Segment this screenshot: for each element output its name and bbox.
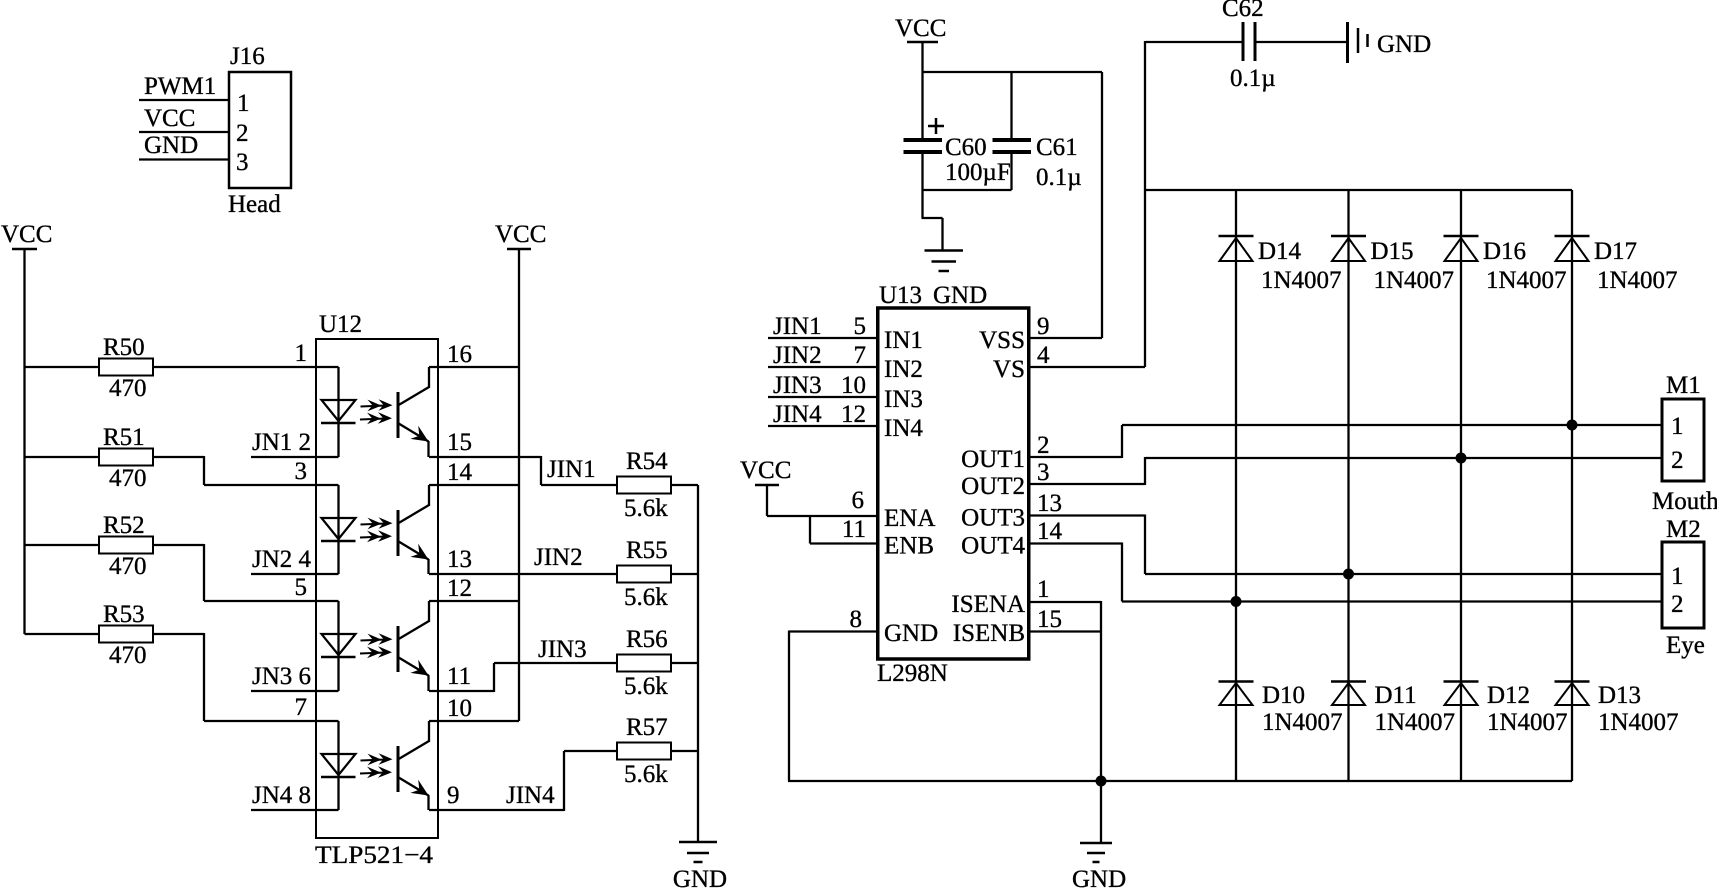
svg-text:5.6k: 5.6k: [624, 584, 668, 611]
wire VCC rail to R53: [25, 633, 100, 635]
resistor R51: [99, 449, 153, 466]
U12 channel 4 phototransistor: [397, 746, 400, 792]
svg-text:ISENA: ISENA: [951, 591, 1025, 618]
wire JN3 stub: [251, 690, 339, 692]
svg-text:3: 3: [236, 149, 249, 176]
resistor R54: [617, 477, 671, 494]
wire C62 to GND: [1255, 41, 1347, 43]
svg-text:470: 470: [109, 553, 147, 580]
wire JIN1 to U13 IN1: [768, 337, 878, 339]
svg-text:15: 15: [447, 429, 472, 456]
wire J16 pin3: [139, 158, 229, 160]
svg-text:JN2 4: JN2 4: [252, 546, 312, 573]
wire R55 to GND rail: [671, 573, 698, 575]
svg-text:12: 12: [841, 401, 866, 428]
svg-text:2: 2: [1671, 591, 1684, 618]
optocoupler U12 TLP521-4 body: [316, 339, 438, 838]
wire to GND (C60/C61): [921, 190, 923, 218]
svg-text:ISENB: ISENB: [953, 620, 1025, 647]
svg-text:R50: R50: [103, 334, 145, 361]
diode D12: [1444, 680, 1479, 683]
svg-text:Head: Head: [228, 191, 281, 218]
svg-text:OUT4: OUT4: [961, 533, 1025, 560]
svg-text:D10: D10: [1262, 682, 1305, 709]
svg-text:D13: D13: [1598, 682, 1641, 709]
wire OUT3: [1029, 514, 1145, 516]
wire JN2 stub: [251, 573, 339, 575]
U12 channel 3 light arrows: [361, 633, 393, 645]
svg-text:VCC: VCC: [1, 221, 52, 248]
svg-text:R53: R53: [103, 601, 145, 628]
wire C60/C61 bottom node: [921, 152, 923, 190]
svg-text:1: 1: [1671, 563, 1684, 590]
svg-text:L298N: L298N: [877, 660, 948, 687]
svg-text:VS: VS: [993, 356, 1025, 383]
svg-text:1: 1: [295, 340, 308, 367]
svg-text:14: 14: [447, 459, 473, 486]
svg-text:1N4007: 1N4007: [1486, 267, 1567, 294]
wire VS node to C62: [1145, 41, 1243, 43]
wire U12 pin9 to JIN4: [429, 809, 564, 811]
svg-text:PWM1: PWM1: [144, 73, 216, 100]
wire R52 to U12 pin 5: [153, 544, 204, 546]
svg-text:12: 12: [447, 575, 472, 602]
svg-text:2: 2: [236, 120, 249, 147]
wire U12 pin13 to JIN2: [429, 573, 617, 575]
svg-text:VCC: VCC: [895, 15, 946, 42]
svg-text:VCC: VCC: [740, 457, 791, 484]
svg-text:R57: R57: [626, 714, 668, 741]
resistor R52: [99, 537, 153, 554]
wire J16 pin1: [139, 99, 229, 101]
svg-text:C61: C61: [1036, 134, 1078, 161]
svg-text:JIN3: JIN3: [773, 372, 822, 399]
svg-text:1: 1: [1037, 576, 1050, 603]
svg-text:GND: GND: [933, 282, 987, 309]
svg-text:JN3 6: JN3 6: [252, 663, 311, 690]
wire U12 pin 10 to VCC rail: [429, 720, 519, 722]
svg-text:9: 9: [447, 782, 460, 809]
wire diode top bus (motor supply): [1145, 189, 1572, 191]
svg-text:IN3: IN3: [884, 386, 923, 413]
svg-text:1: 1: [1671, 413, 1684, 440]
connector M1: [1662, 399, 1704, 481]
svg-text:0.1µ: 0.1µ: [1230, 65, 1276, 92]
wire VCC to ENA: [766, 484, 768, 516]
svg-text:1: 1: [237, 90, 250, 117]
wire U13 GND pin to ground bus: [789, 630, 878, 632]
svg-text:D16: D16: [1483, 238, 1526, 265]
svg-text:R51: R51: [103, 424, 145, 451]
wire diode column D17: [1571, 190, 1573, 781]
wire R56 to GND rail: [671, 662, 698, 664]
U12 channel 1 phototransistor: [397, 392, 400, 438]
svg-text:JIN4: JIN4: [506, 782, 555, 809]
svg-text:ENB: ENB: [884, 533, 934, 560]
svg-text:GND: GND: [144, 132, 198, 159]
svg-text:R56: R56: [626, 626, 668, 653]
wire OUT3 to M2 pin1: [1145, 573, 1662, 575]
svg-text:5: 5: [295, 574, 308, 601]
svg-text:OUT2: OUT2: [961, 473, 1025, 500]
ground GND (below R54-R57): [679, 841, 717, 844]
diode D14: [1219, 235, 1254, 238]
resistor R53: [99, 626, 153, 643]
svg-text:1N4007: 1N4007: [1374, 267, 1455, 294]
svg-text:1N4007: 1N4007: [1262, 709, 1343, 736]
ground GND (C60/C61): [925, 249, 964, 252]
svg-text:2: 2: [1671, 447, 1684, 474]
svg-text:0.1µ: 0.1µ: [1036, 164, 1082, 191]
svg-text:470: 470: [109, 642, 147, 669]
wire U12 pin 12 to VCC rail: [429, 600, 519, 602]
resistor R57: [617, 743, 671, 760]
junction (OUT4/D14): [1231, 596, 1242, 607]
diode D17: [1555, 235, 1590, 238]
svg-text:TLP521−4: TLP521−4: [315, 842, 434, 869]
svg-text:2: 2: [1037, 432, 1050, 459]
svg-text:JIN3: JIN3: [538, 636, 587, 663]
svg-text:M2: M2: [1666, 516, 1701, 543]
svg-text:GND: GND: [673, 866, 727, 889]
svg-text:10: 10: [841, 372, 866, 399]
U12 channel 2 light arrows: [361, 517, 393, 529]
wire R57 to GND rail: [671, 750, 698, 752]
svg-text:1N4007: 1N4007: [1597, 267, 1678, 294]
diode D13: [1555, 680, 1590, 683]
wire ISEN ground riser: [1100, 601, 1102, 781]
ground GND (C62, sideways): [1346, 22, 1349, 63]
diode D16: [1444, 235, 1479, 238]
wire R54 to GND rail: [671, 484, 698, 486]
diode D15: [1331, 235, 1366, 238]
svg-text:7: 7: [854, 342, 867, 369]
wire ground bus (bottom): [788, 780, 1572, 782]
wire OUT4: [1029, 542, 1122, 544]
wire R51 to U12 pin 3: [153, 456, 204, 458]
svg-text:1N4007: 1N4007: [1487, 709, 1568, 736]
svg-text:IN2: IN2: [884, 356, 923, 383]
wire ENA to ENB: [809, 516, 811, 544]
svg-text:C60: C60: [945, 134, 987, 161]
svg-text:IN1: IN1: [884, 327, 923, 354]
wire J16 pin2: [139, 131, 229, 133]
svg-text:D11: D11: [1375, 682, 1417, 709]
U12 channel 2 LED: [337, 485, 339, 574]
svg-text:IN4: IN4: [884, 415, 923, 442]
connector M2: [1662, 542, 1704, 628]
svg-text:GND: GND: [1377, 31, 1431, 58]
svg-text:C62: C62: [1222, 0, 1264, 22]
U12 channel 3 LED: [337, 601, 339, 691]
svg-text:100µF: 100µF: [945, 159, 1011, 186]
resistor R55: [617, 566, 671, 583]
svg-text:1N4007: 1N4007: [1598, 709, 1679, 736]
svg-text:U12: U12: [319, 311, 362, 338]
svg-text:13: 13: [1037, 490, 1062, 517]
svg-text:470: 470: [109, 375, 147, 402]
junction (OUT3/D15): [1343, 569, 1354, 580]
wire R50 to U12 pin 1: [153, 366, 339, 368]
svg-text:J16: J16: [230, 43, 265, 70]
junction (OUT1/D17): [1567, 420, 1578, 431]
capacitor C60 (electrolytic): [904, 138, 943, 142]
svg-text:11: 11: [447, 663, 471, 690]
svg-text:R55: R55: [626, 537, 668, 564]
ground GND (main): [1100, 781, 1102, 842]
wire JIN2 to U13 IN2: [768, 366, 878, 368]
wire JN1 stub: [251, 456, 339, 458]
svg-text:D12: D12: [1487, 682, 1530, 709]
U12 channel 1 light arrows: [361, 399, 393, 411]
connector J16: [229, 72, 291, 188]
wire diode column D16: [1460, 190, 1462, 781]
wire U12 pin11 to JIN3: [429, 690, 494, 692]
U12 channel 2 phototransistor: [397, 510, 400, 556]
wire C61 branch: [1010, 72, 1012, 140]
svg-text:D17: D17: [1594, 238, 1637, 265]
svg-text:OUT1: OUT1: [961, 446, 1025, 473]
junction (ground bus / GND symbol): [1096, 776, 1107, 787]
svg-text:JIN2: JIN2: [534, 544, 583, 571]
svg-text:JIN1: JIN1: [773, 313, 822, 340]
svg-text:5.6k: 5.6k: [624, 673, 668, 700]
svg-text:R52: R52: [103, 512, 145, 539]
wire U12 pin 16 to VCC rail: [429, 366, 519, 368]
svg-text:D15: D15: [1371, 238, 1414, 265]
svg-text:10: 10: [447, 695, 472, 722]
svg-text:Eye: Eye: [1666, 632, 1705, 659]
svg-text:JIN1: JIN1: [547, 456, 596, 483]
svg-text:ENA: ENA: [884, 505, 935, 532]
resistor R56: [617, 655, 671, 672]
wire JIN4 to U13 IN4: [768, 425, 878, 427]
svg-text:8: 8: [850, 606, 863, 633]
junction (OUT2/D16): [1456, 453, 1467, 464]
svg-text:3: 3: [1037, 459, 1050, 486]
wire VCC to C60/C61 node: [921, 41, 923, 140]
wire JN4 stub: [251, 809, 339, 811]
wire OUT1 to M1 pin1: [1122, 424, 1662, 426]
wire ISENA to ground: [1029, 601, 1101, 603]
wire U13 VS to motor supply: [1029, 366, 1145, 368]
wire VCC rail to R50: [25, 366, 100, 368]
resistor R50: [99, 359, 153, 376]
svg-text:D14: D14: [1258, 238, 1302, 265]
svg-text:GND: GND: [884, 620, 938, 647]
svg-text:15: 15: [1037, 606, 1062, 633]
wire U12 pin15 to JIN1: [429, 456, 541, 458]
IC U13 L298N body: [878, 308, 1029, 659]
svg-text:1N4007: 1N4007: [1375, 709, 1456, 736]
svg-text:VCC: VCC: [144, 105, 195, 132]
wire JIN3 to U13 IN3: [768, 396, 878, 398]
wire diode column D14: [1235, 190, 1237, 781]
svg-text:JIN2: JIN2: [773, 342, 822, 369]
svg-text:M1: M1: [1666, 372, 1701, 399]
wire VCC rail to R52: [25, 544, 100, 546]
svg-text:R54: R54: [626, 448, 668, 475]
capacitor C62: [1242, 22, 1245, 61]
wire diode column D15: [1347, 190, 1349, 781]
svg-text:470: 470: [109, 465, 147, 492]
svg-text:JN1 2: JN1 2: [252, 429, 311, 456]
wire JIN pulldown GND rail: [697, 485, 699, 842]
svg-text:5: 5: [854, 313, 867, 340]
svg-text:11: 11: [842, 516, 866, 543]
capacitor C61: [993, 138, 1032, 142]
wire OUT1: [1029, 456, 1122, 458]
wire U12 pin 14 to VCC rail: [429, 484, 519, 486]
svg-text:VSS: VSS: [979, 327, 1025, 354]
U12 channel 1 LED: [337, 367, 339, 457]
svg-text:GND: GND: [1072, 866, 1126, 889]
polarity + (C60): [928, 125, 944, 128]
wire OUT4 to M2 pin2: [1122, 600, 1662, 602]
diode D11: [1331, 680, 1366, 683]
diode D10: [1219, 680, 1254, 683]
svg-text:U13: U13: [879, 282, 922, 309]
wire U13 VSS to +5V node: [1029, 337, 1102, 339]
wire OUT2: [1029, 483, 1145, 485]
wire OUT2 to M1 pin2: [1145, 457, 1662, 459]
svg-text:JN4 8: JN4 8: [252, 782, 311, 809]
wire VSS riser: [1101, 72, 1103, 338]
wire VCC rail to R51: [25, 456, 100, 458]
svg-text:5.6k: 5.6k: [624, 495, 668, 522]
svg-text:1N4007: 1N4007: [1261, 267, 1342, 294]
wire left VCC rail: [23, 248, 25, 634]
U12 channel 3 phototransistor: [397, 626, 400, 672]
wire ISENB to ground: [1029, 630, 1101, 632]
svg-text:14: 14: [1037, 518, 1063, 545]
svg-text:5.6k: 5.6k: [624, 761, 668, 788]
svg-text:6: 6: [852, 487, 865, 514]
svg-text:16: 16: [447, 341, 472, 368]
svg-text:OUT3: OUT3: [961, 505, 1025, 532]
svg-text:Mouth: Mouth: [1652, 488, 1717, 515]
svg-text:13: 13: [447, 546, 472, 573]
U12 channel 4 LED: [337, 721, 339, 810]
wire VS riser: [1144, 41, 1146, 367]
svg-text:JIN4: JIN4: [773, 401, 822, 428]
U12 channel 4 light arrows: [361, 753, 393, 765]
svg-text:4: 4: [1037, 342, 1050, 369]
svg-text:VCC: VCC: [495, 221, 546, 248]
svg-text:9: 9: [1037, 313, 1050, 340]
wire VCC rail (U12 right): [518, 248, 520, 721]
svg-text:3: 3: [295, 458, 308, 485]
wire R53 to U12 pin 7: [153, 633, 204, 635]
svg-text:7: 7: [295, 694, 308, 721]
